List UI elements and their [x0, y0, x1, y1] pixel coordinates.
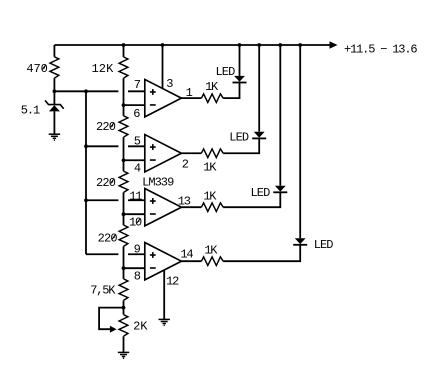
label 470	[26, 62, 47, 76]
wire 7,5K to pot	[123, 300, 125, 307]
resistor 12K	[119, 57, 128, 78]
wire power rail +V	[54, 44, 330, 46]
junction rail/pin3	[161, 43, 165, 47]
pin label 5	[134, 135, 141, 149]
node A junction	[122, 103, 126, 107]
svg-text:D: D	[263, 186, 270, 200]
power rail arrowhead	[330, 41, 338, 49]
pin label 13	[178, 194, 191, 208]
wire hop to comp 3 + input	[128, 199, 145, 201]
pin label 12	[166, 275, 179, 289]
pin label 10	[129, 216, 142, 230]
svg-text:D: D	[326, 238, 333, 252]
zener diode 5.1V	[45, 91, 64, 134]
wire pot to ground	[123, 336, 125, 352]
junction ref bus to U1B +	[84, 144, 88, 148]
wire pin 12 to ground	[163, 270, 165, 319]
resistor 1K row 4	[201, 257, 223, 266]
ground (pot)	[118, 352, 129, 358]
wire LED 3 anode to rail	[279, 45, 281, 186]
svg-text:−: −	[380, 42, 387, 56]
svg-text:4: 4	[186, 247, 193, 261]
svg-text:1: 1	[91, 62, 98, 76]
svg-text:1: 1	[33, 103, 40, 117]
wire ref bus to hop (comp 3 +)	[86, 199, 118, 201]
label 220 b	[96, 176, 116, 190]
wire node REF to hop	[54, 90, 118, 92]
svg-text:3: 3	[184, 194, 191, 208]
wire node B to R 220b	[123, 160, 125, 171]
svg-text:2: 2	[172, 275, 179, 289]
wire comp 1 output	[181, 97, 201, 99]
wire 220c to node D	[123, 246, 125, 268]
svg-text:0: 0	[135, 216, 142, 230]
label 12K	[91, 62, 114, 76]
svg-text:9: 9	[167, 176, 174, 190]
pin label 14	[180, 247, 193, 261]
svg-text:4: 4	[134, 161, 141, 175]
wire node A to R 220a	[123, 105, 125, 116]
wire LED 1 anode to rail	[239, 45, 241, 76]
label 7,5K	[90, 284, 116, 298]
svg-text:K: K	[210, 244, 218, 258]
wire reference bus vertical	[85, 91, 87, 254]
pin label 11	[129, 190, 142, 204]
label +11.5 - 13.6 supply	[344, 42, 418, 56]
svg-text:K: K	[108, 284, 116, 298]
wire comp 2 output	[181, 152, 201, 154]
wire node D to R 7,5K	[123, 268, 125, 279]
resistor 1K row 3	[201, 203, 223, 212]
svg-text:3: 3	[166, 77, 173, 91]
junction ref line tap	[84, 89, 88, 93]
svg-text:K: K	[211, 80, 219, 94]
label 220 a	[96, 120, 116, 134]
wire hop to U1 pin 7	[128, 90, 145, 92]
resistor 220 a	[119, 116, 128, 137]
pin label 4	[134, 161, 141, 175]
wire 220a to node B	[123, 137, 125, 160]
svg-text:8: 8	[134, 269, 141, 283]
op-amp U1A (LM339 comparator)	[145, 79, 182, 116]
label 1K row 2	[203, 161, 217, 175]
wire node C to R 220c	[123, 214, 125, 225]
label LM339	[142, 176, 174, 190]
svg-text:1: 1	[135, 190, 142, 204]
pin label 3	[166, 77, 173, 91]
svg-text:D: D	[228, 65, 235, 79]
svg-text:K: K	[106, 62, 114, 76]
label 220 c	[98, 232, 118, 246]
wire rail to R 12K	[123, 45, 125, 57]
wire hop to comp 2 + input	[128, 145, 145, 147]
wire 220b to node C	[123, 193, 125, 215]
label LED row 2	[229, 130, 249, 144]
svg-text:0: 0	[41, 62, 48, 76]
resistor 1K row 2	[201, 149, 223, 158]
node D junction	[122, 266, 126, 270]
op-amp U1D (LM339 comparator)	[145, 243, 182, 280]
label 5.1	[21, 103, 40, 117]
junction zener/R470/ref node	[53, 89, 57, 93]
pin label 2	[182, 158, 189, 172]
wire pot wiper	[99, 308, 123, 330]
junction rail/LED 3	[278, 43, 282, 47]
svg-text:0: 0	[110, 232, 117, 246]
ground (zener)	[49, 134, 60, 140]
resistor 220 b	[119, 171, 128, 192]
label LED row 4	[314, 238, 334, 252]
wire node B to U1 pin 4	[124, 159, 145, 161]
svg-text:0: 0	[109, 120, 116, 134]
label LED row 1	[215, 65, 235, 79]
svg-text:7: 7	[134, 78, 141, 92]
wire ref bus to hop (comp 4 +)	[86, 253, 118, 255]
resistor 220 c	[119, 225, 128, 246]
label 1K row 3	[203, 189, 217, 203]
junction rail/LED 1	[238, 43, 242, 47]
LED D4	[293, 238, 307, 245]
svg-text:6: 6	[133, 107, 140, 121]
svg-text:K: K	[209, 161, 217, 175]
wire node D to U1 pin 8	[124, 267, 145, 269]
LED D2	[252, 132, 266, 139]
wire 1K to LED 3 cathode	[223, 192, 280, 207]
wire ref bus to hop (comp 2 +)	[86, 145, 118, 147]
wire 1K to LED 4 cathode	[223, 245, 300, 261]
pin label 1	[186, 86, 193, 100]
pot wiper arrowhead	[110, 326, 117, 333]
node B junction	[122, 158, 126, 162]
wire comp 4 output	[181, 260, 201, 262]
wire rail to pin 3 (Vcc)	[162, 45, 164, 88]
wire rail to R 470	[53, 45, 55, 57]
svg-text:5: 5	[134, 135, 141, 149]
op-amp U1C (LM339 comparator)	[145, 189, 182, 226]
wire pot top lead	[123, 308, 125, 315]
svg-text:K: K	[209, 189, 217, 203]
node C junction	[122, 212, 126, 216]
junction rail/12K	[122, 43, 126, 47]
LED D1	[233, 76, 247, 83]
wire 1K to LED 2 cathode	[223, 138, 259, 153]
pin label 7	[134, 78, 141, 92]
wire 1K to LED 1 cathode	[223, 83, 239, 99]
junction rail/LED 4	[298, 43, 302, 47]
junction ref bus to U1C +	[84, 198, 88, 202]
svg-text:D: D	[242, 130, 249, 144]
wire node C to U1 pin 10	[124, 213, 145, 215]
label 1K row 1	[205, 80, 219, 94]
junction pot top/wiper	[122, 306, 126, 310]
wire R470 to node REF	[53, 78, 55, 91]
wire LED 4 anode to rail	[299, 45, 301, 238]
potentiometer 2K body	[119, 315, 128, 337]
resistor 1K row 1	[201, 94, 223, 103]
svg-text:0: 0	[109, 176, 116, 190]
op-amp U1B (LM339 comparator)	[145, 135, 182, 172]
wire hop to comp 4 + input	[128, 253, 145, 255]
wire LED 2 anode to rail	[258, 45, 260, 132]
LED D3	[273, 186, 287, 193]
svg-text:K: K	[140, 320, 148, 334]
label 2K	[133, 320, 148, 334]
svg-text:2: 2	[182, 158, 189, 172]
wire 12K to node A	[123, 78, 125, 105]
pin label 9	[134, 243, 141, 257]
ground (pin 12)	[159, 319, 170, 325]
junction rail/LED 2	[257, 43, 261, 47]
wire node A to U1 pin 6	[124, 104, 145, 106]
resistor 470	[50, 57, 59, 78]
svg-text:6: 6	[410, 42, 417, 56]
label LED row 3	[250, 186, 270, 200]
svg-text:2: 2	[99, 62, 106, 76]
label 1K row 4	[204, 244, 218, 258]
resistor 7,5K	[119, 279, 128, 301]
pin label 6	[133, 107, 140, 121]
svg-text:9: 9	[134, 243, 141, 257]
svg-text:5: 5	[368, 42, 375, 56]
wire comp 3 output	[181, 206, 201, 208]
pin label 8	[134, 269, 141, 283]
